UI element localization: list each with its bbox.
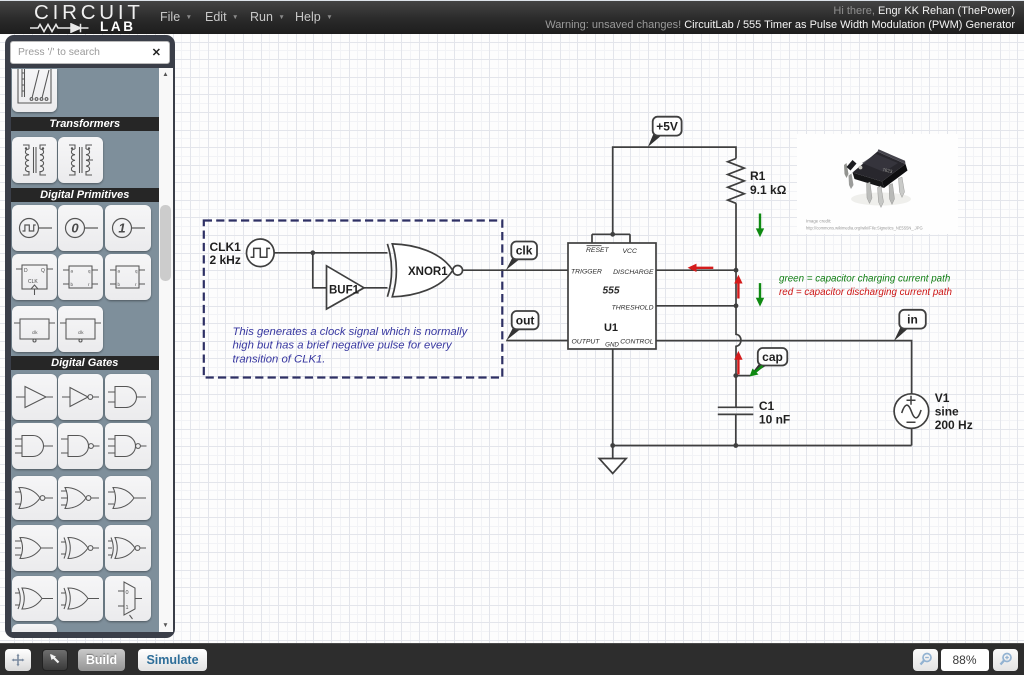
svg-text:clk: clk (78, 330, 84, 335)
svg-text:r: r (135, 282, 137, 287)
svg-text:q: q (88, 269, 91, 274)
svg-text:1: 1 (118, 221, 125, 236)
svg-text:sine: sine (935, 405, 959, 419)
svg-text:q: q (135, 269, 138, 274)
svg-text:b: b (118, 282, 121, 287)
svg-text:CONTROL: CONTROL (620, 339, 653, 346)
svg-text:http://commons.wikimedia.org/w: http://commons.wikimedia.org/wiki/File:S… (806, 226, 923, 231)
svg-text:out: out (516, 314, 535, 328)
svg-text:cap: cap (762, 350, 783, 364)
svg-text:This generates a clock signal: This generates a clock signal which is n… (233, 326, 469, 338)
svg-text:red = capacitor discharging cu: red = capacitor discharging current path (779, 287, 952, 298)
svg-text:VCC: VCC (623, 248, 637, 255)
svg-text:RESET: RESET (586, 247, 610, 254)
svg-text:XNOR1: XNOR1 (408, 266, 448, 278)
svg-text:clk: clk (516, 244, 533, 258)
svg-text:TRIGGER: TRIGGER (571, 269, 602, 276)
svg-text:GND: GND (605, 342, 619, 349)
svg-text:DISCHARGE: DISCHARGE (613, 269, 654, 276)
svg-text:green = capacitor charging cur: green = capacitor charging current path (779, 273, 950, 284)
svg-text:transition of CLK1.: transition of CLK1. (233, 353, 326, 365)
svg-text:D: D (24, 268, 28, 274)
svg-text:10 nF: 10 nF (759, 413, 790, 427)
svg-text:0: 0 (126, 590, 129, 596)
svg-text:r: r (88, 282, 90, 287)
svg-text:2 kHz: 2 kHz (210, 253, 241, 267)
svg-text:1: 1 (126, 605, 129, 611)
svg-text:a: a (118, 269, 121, 274)
svg-text:a: a (71, 269, 74, 274)
svg-text:in: in (907, 313, 918, 327)
svg-text:C1: C1 (759, 399, 775, 413)
svg-text:V1: V1 (935, 391, 950, 405)
svg-text:Image credit:: Image credit: (806, 219, 831, 224)
svg-text:THRESHOLD: THRESHOLD (612, 305, 654, 312)
svg-text:clk: clk (32, 330, 38, 335)
svg-text:555: 555 (603, 286, 620, 297)
svg-text:U1: U1 (604, 322, 618, 334)
svg-text:R1: R1 (750, 169, 766, 183)
svg-text:high but has a brief negative: high but has a brief negative pulse for … (233, 340, 454, 352)
svg-text:Q: Q (41, 268, 45, 274)
svg-text:b: b (71, 282, 74, 287)
svg-text:OUTPUT: OUTPUT (572, 339, 601, 346)
svg-text:200 Hz: 200 Hz (935, 418, 973, 432)
svg-text:+5V: +5V (656, 119, 678, 133)
svg-text:9.1 kΩ: 9.1 kΩ (750, 183, 787, 197)
svg-text:CLK1: CLK1 (210, 240, 242, 254)
svg-text:BUF1: BUF1 (329, 284, 360, 296)
svg-text:CLK: CLK (28, 279, 38, 285)
svg-text:0: 0 (71, 221, 79, 236)
